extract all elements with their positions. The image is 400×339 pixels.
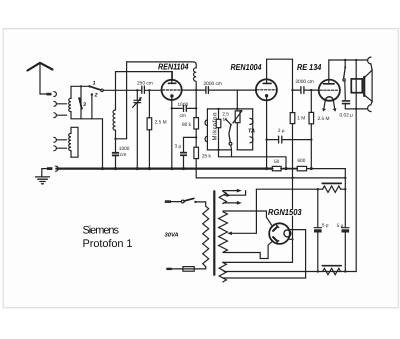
svg-text:2.5: 2.5 bbox=[222, 111, 229, 117]
svg-text:Protofon 1: Protofon 1 bbox=[83, 238, 133, 250]
svg-text:5 μ: 5 μ bbox=[337, 223, 344, 229]
svg-text:3 μ: 3 μ bbox=[278, 128, 285, 134]
svg-text:Siemens: Siemens bbox=[83, 224, 120, 236]
svg-text:80 k: 80 k bbox=[182, 122, 192, 128]
svg-text:Mikrofon: Mikrofon bbox=[212, 113, 219, 141]
svg-text:25 k: 25 k bbox=[202, 154, 212, 160]
svg-text:1000: 1000 bbox=[178, 102, 189, 108]
svg-text:250 cm: 250 cm bbox=[137, 81, 153, 87]
svg-text:RGN1503: RGN1503 bbox=[268, 207, 302, 217]
svg-text:0.02 μ: 0.02 μ bbox=[340, 112, 354, 118]
svg-text:RE 134: RE 134 bbox=[297, 62, 321, 72]
svg-text:2.5 M: 2.5 M bbox=[318, 116, 330, 122]
svg-text:2: 2 bbox=[94, 93, 98, 99]
svg-text:REN1104: REN1104 bbox=[158, 61, 189, 71]
svg-text:M: M bbox=[223, 117, 227, 123]
svg-text:cm: cm bbox=[120, 153, 126, 158]
svg-text:50: 50 bbox=[274, 159, 280, 165]
svg-text:2000 cm: 2000 cm bbox=[295, 79, 313, 85]
svg-text:1000: 1000 bbox=[119, 146, 130, 152]
svg-text:TA: TA bbox=[248, 129, 255, 135]
svg-text:2000 cm: 2000 cm bbox=[204, 81, 222, 87]
svg-text:2.5 M: 2.5 M bbox=[155, 119, 167, 125]
svg-text:1 M: 1 M bbox=[297, 115, 305, 121]
svg-text:30VA: 30VA bbox=[165, 232, 179, 239]
svg-text:600: 600 bbox=[297, 158, 305, 164]
svg-text:1: 1 bbox=[93, 81, 96, 87]
svg-text:3: 3 bbox=[83, 102, 86, 108]
svg-text:REN1004: REN1004 bbox=[231, 62, 262, 72]
svg-text:cm: cm bbox=[180, 114, 186, 119]
svg-text:5 μ: 5 μ bbox=[322, 223, 329, 229]
svg-text:3 μ: 3 μ bbox=[175, 144, 182, 150]
